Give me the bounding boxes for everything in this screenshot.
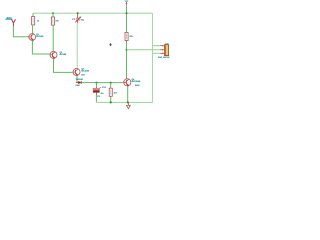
svg-text:BC548: BC548 xyxy=(132,80,141,83)
diode D1 xyxy=(75,78,82,87)
transistor Q4 xyxy=(124,78,141,87)
svg-text:+ C2: + C2 xyxy=(99,87,106,89)
svg-text:0A91: 0A91 xyxy=(81,74,85,77)
svg-text:1k: 1k xyxy=(37,20,39,22)
svg-text:LS1: LS1 xyxy=(165,43,168,45)
svg-text:0A91: 0A91 xyxy=(135,84,140,87)
wire R2 to Q2 collector xyxy=(52,25,54,51)
wire Q3 emitter xyxy=(76,76,78,83)
capacitor C2 electrolytic xyxy=(93,83,106,103)
speaker LS1 xyxy=(158,43,169,59)
junction R3 top xyxy=(110,82,112,84)
svg-text:1N4148: 1N4148 xyxy=(76,78,83,81)
svg-text:47k: 47k xyxy=(129,35,132,38)
junction VCC rail crossing xyxy=(126,12,128,14)
wire antenna to Q1 base xyxy=(13,26,28,37)
transistor Q2 xyxy=(50,51,66,59)
wire R4 to Q4 collector xyxy=(126,42,128,79)
wire diode to Q4 base xyxy=(82,82,124,84)
junction speaker branch xyxy=(126,49,128,51)
resistor R1 xyxy=(32,13,40,25)
junction C2 tap xyxy=(96,82,98,84)
svg-text:OA91: OA91 xyxy=(75,84,79,87)
svg-text:10u: 10u xyxy=(101,93,104,95)
wire speaker pin3 xyxy=(153,52,160,54)
junction R2 top xyxy=(52,12,54,14)
svg-text:C1: C1 xyxy=(72,19,75,21)
svg-text:BC548: BC548 xyxy=(81,69,89,72)
svg-text:65p: 65p xyxy=(81,20,84,22)
antenna AE1 xyxy=(5,17,15,27)
ground xyxy=(127,103,131,109)
resistor R3 xyxy=(109,83,117,103)
wire R1 to Q1 collector xyxy=(32,25,34,34)
svg-text:BC548: BC548 xyxy=(60,53,67,56)
svg-text:BC548: BC548 xyxy=(36,35,43,38)
wire Q1 emitter to Q2 base xyxy=(32,40,50,54)
trimmer capacitor C1 xyxy=(72,13,84,23)
power terminal VCC xyxy=(125,1,129,6)
junction trimmer top xyxy=(77,12,79,14)
resistor R4 xyxy=(125,32,133,42)
wire speaker pin1 xyxy=(153,45,160,47)
svg-text:10k: 10k xyxy=(55,21,58,23)
node marker xyxy=(109,43,112,46)
transistor Q3 xyxy=(73,68,89,76)
junction R3 bottom xyxy=(110,101,112,103)
wire VCC to R4 xyxy=(126,6,128,33)
svg-text:ANTENNA: ANTENNA xyxy=(5,18,13,21)
transistor Q1 xyxy=(29,34,44,41)
wire trimmer to Q3 collector xyxy=(76,23,78,68)
wire Q2 emitter to Q3 base xyxy=(54,58,73,72)
svg-text:C2: C2 xyxy=(97,96,100,98)
wire bottom ground rail xyxy=(97,101,153,103)
wire Q4 emitter xyxy=(127,86,129,103)
svg-text:EAR_25X105: EAR_25X105 xyxy=(158,56,169,59)
wire top VCC rail xyxy=(33,12,153,14)
wire right vertical xyxy=(152,13,154,102)
wire speaker pin2 xyxy=(127,49,160,51)
junction ground xyxy=(127,101,129,103)
resistor R2 xyxy=(51,13,58,25)
svg-text:4k7: 4k7 xyxy=(114,92,117,95)
